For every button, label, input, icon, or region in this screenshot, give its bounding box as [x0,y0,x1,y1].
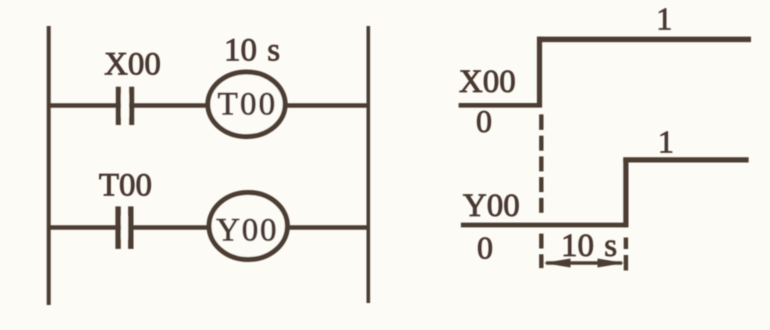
X00 waveform low segment [459,103,542,108]
dimension arrow shaft 10 s [546,261,622,264]
contact T00 gap [121,216,129,239]
Y00 waveform low segment [461,223,626,228]
dashed tick below Y00 rising edge [624,238,628,250]
svg-text:X00: X00 [459,64,516,100]
contact T00 [115,206,133,249]
arrowhead right [598,259,625,268]
dashed reference line at X00 rising edge [539,114,543,268]
contact X00 [116,87,134,125]
Y00 waveform high segment [623,157,748,162]
wire rung 2 [48,225,368,229]
timer coil T00 [208,72,285,137]
svg-text:Y00: Y00 [216,213,278,249]
X00 waveform high segment [537,37,751,43]
Y00 waveform rising edge [623,158,628,228]
svg-text:T00: T00 [218,87,278,123]
wire rung 1 [48,103,368,107]
svg-text:10 s: 10 s [224,33,280,69]
left power rail [47,26,51,305]
svg-text:1: 1 [658,124,674,160]
svg-text:X00: X00 [104,47,161,83]
svg-text:0: 0 [476,103,492,139]
svg-text:1: 1 [656,1,672,37]
svg-text:0: 0 [477,230,493,266]
contact X00 gap [121,94,129,117]
svg-text:T00: T00 [99,168,152,204]
dashed tick 2 below Y00 rising edge [624,255,628,271]
X00 waveform rising edge [537,37,542,108]
svg-text:10 s: 10 s [561,228,617,264]
svg-text:Y00: Y00 [463,188,520,224]
arrowhead left [544,259,571,268]
output coil Y00 [209,193,287,260]
right power rail [366,26,370,303]
